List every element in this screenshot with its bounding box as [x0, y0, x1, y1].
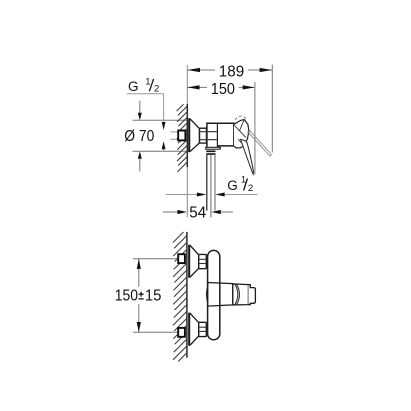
extension lines D70	[133, 119, 187, 121]
dimension 150 plus-minus 15	[138, 259, 140, 287]
lever pointing down	[241, 139, 254, 174]
svg-text:G: G	[128, 79, 139, 94]
svg-text:2: 2	[154, 83, 159, 94]
handle hub (side view)	[234, 120, 249, 148]
svg-text:189: 189	[219, 63, 244, 80]
svg-text:2: 2	[248, 183, 253, 194]
dimension 54	[163, 211, 178, 213]
wall hatching (bottom view)	[173, 232, 184, 243]
svg-text:15: 15	[145, 287, 162, 304]
upper union nut	[199, 254, 207, 268]
body capsule	[208, 250, 220, 339]
dimension 150	[187, 86, 207, 88]
svg-text:1: 1	[145, 76, 150, 87]
handle dashed arc	[235, 116, 245, 120]
dome bulge	[206, 287, 207, 303]
mixer body (top view)	[207, 123, 234, 148]
lower supply nipple square	[178, 328, 185, 337]
upper escutcheon cone	[189, 245, 199, 277]
svg-text:54: 54	[189, 205, 206, 222]
hex flat lines	[200, 131, 218, 133]
supply nipple square (top view)	[178, 131, 185, 141]
supply pipe stub (top view)	[170, 131, 178, 133]
svg-text:150: 150	[115, 287, 139, 304]
extension line upper connection	[133, 258, 179, 260]
extension line 150	[254, 82, 256, 175]
wall face line (top view)	[186, 65, 188, 104]
extension line 189	[271, 65, 273, 153]
cartridge housing	[208, 283, 233, 307]
outlet flange	[206, 147, 221, 149]
wall hatching (top view)	[177, 104, 184, 111]
upper supply nipple square	[178, 254, 185, 263]
union nut (top view)	[200, 128, 207, 143]
cartridge dome	[233, 284, 249, 305]
wall face line (bottom view)	[186, 232, 188, 358]
svg-text:Ø 70: Ø 70	[124, 128, 154, 145]
dimension D70	[139, 101, 141, 113]
escutcheon cone (top view)	[189, 119, 200, 152]
outlet nut bands	[206, 151, 215, 153]
leader G 1/2 outlet	[166, 194, 197, 196]
lower escutcheon cone	[189, 313, 199, 345]
extension line lower connection	[133, 331, 179, 333]
dimension 189	[187, 69, 215, 71]
outlet pipe	[206, 155, 208, 211]
leader G 1/2 top	[127, 93, 164, 95]
lever raised position	[249, 130, 272, 155]
svg-text:150: 150	[211, 81, 235, 98]
svg-text:G: G	[227, 178, 238, 193]
lower union nut	[199, 322, 207, 336]
end cap	[248, 285, 255, 305]
